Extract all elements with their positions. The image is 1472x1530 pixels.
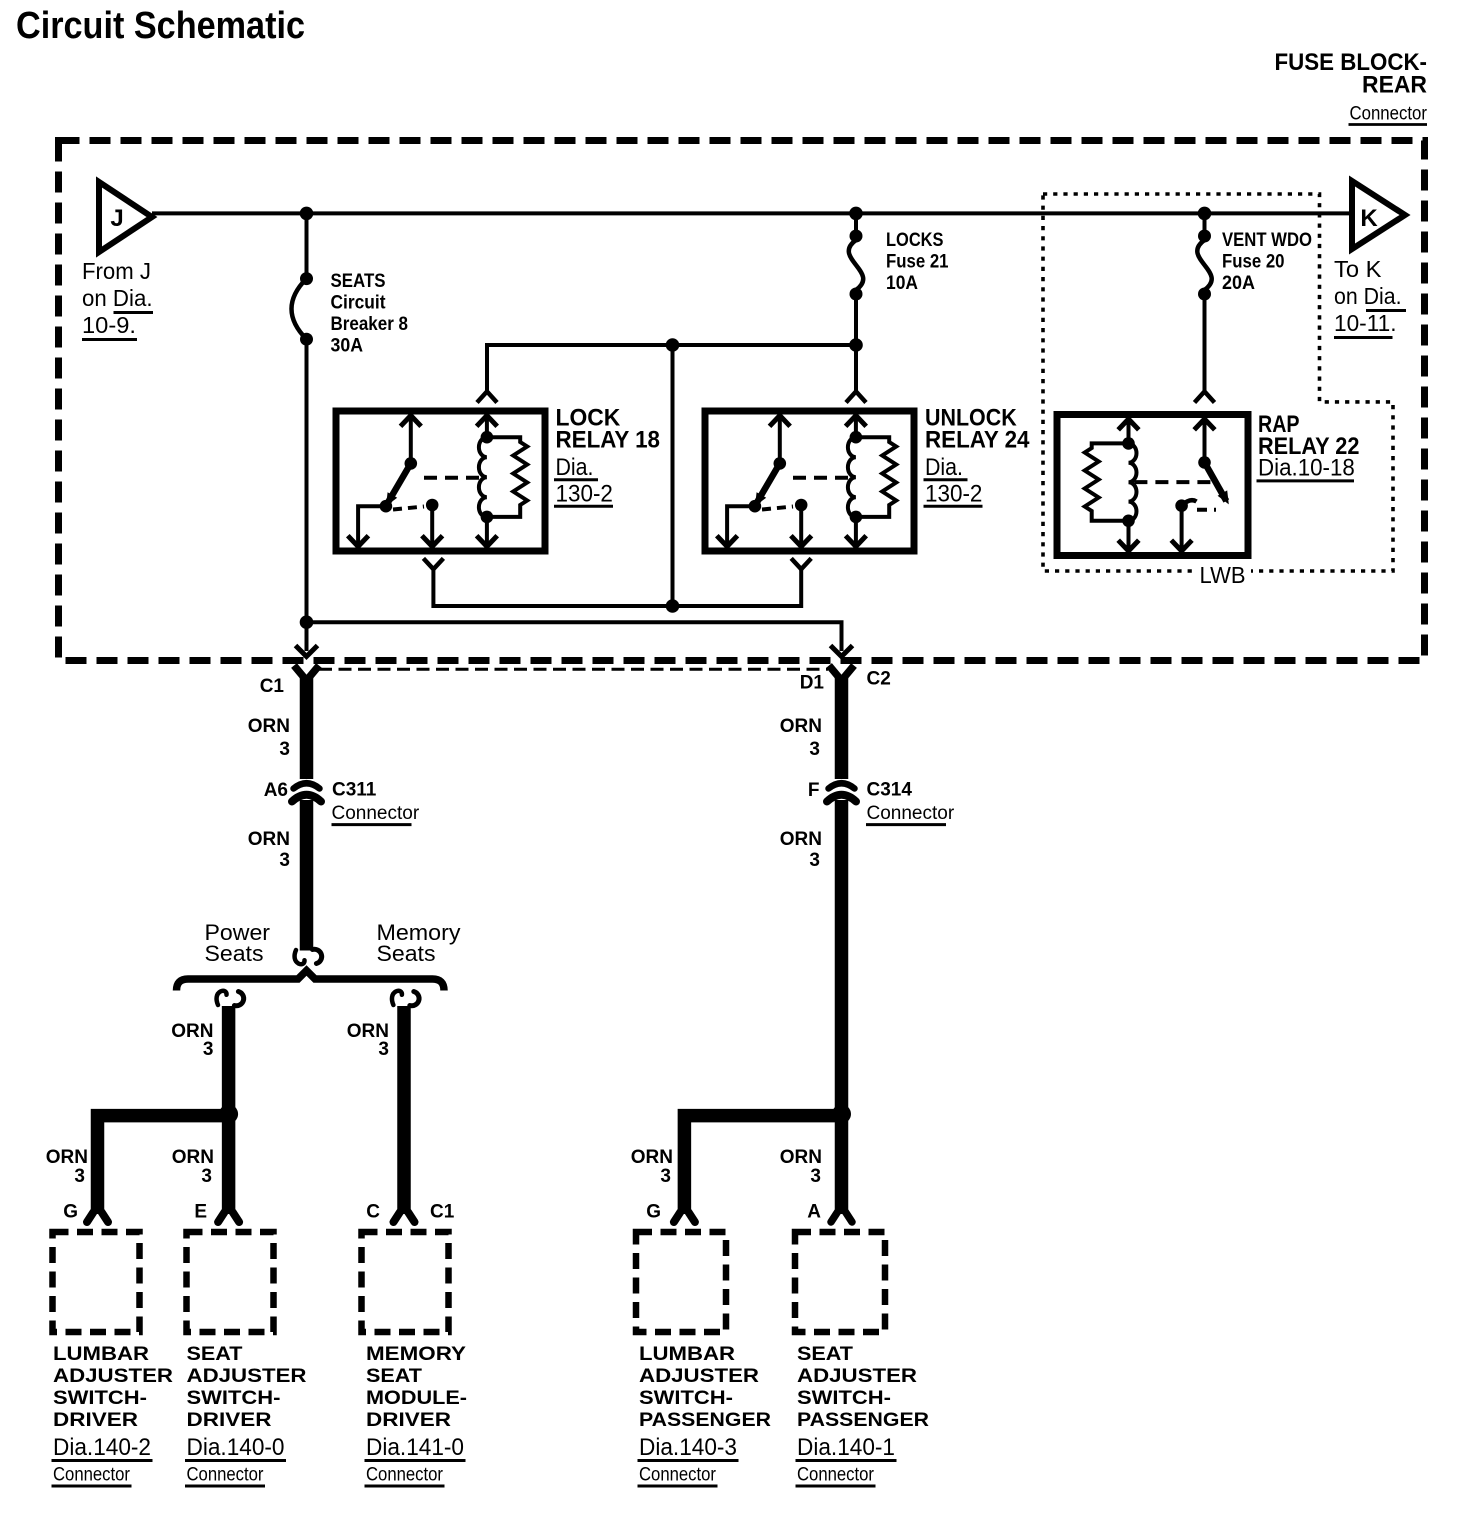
svg-text:Breaker 8: Breaker 8 — [331, 314, 409, 335]
node breaker distribution — [300, 615, 314, 629]
svg-text:3: 3 — [279, 850, 290, 871]
svg-text:3: 3 — [203, 1039, 214, 1060]
svg-text:C: C — [366, 1202, 380, 1223]
svg-text:LUMBAR: LUMBAR — [53, 1344, 149, 1365]
svg-text:ADJUSTER: ADJUSTER — [53, 1366, 173, 1387]
svg-text:3: 3 — [378, 1039, 389, 1060]
node breaker tap — [300, 207, 314, 221]
svg-text:ORN: ORN — [780, 1147, 822, 1168]
svg-text:LWB: LWB — [1200, 562, 1246, 588]
svg-text:PASSENGER: PASSENGER — [797, 1410, 929, 1431]
label LOCK RELAY 18 Dia. 130-2 — [554, 405, 660, 508]
svg-text:Connector: Connector — [187, 1465, 265, 1486]
svg-text:ORN: ORN — [46, 1147, 88, 1168]
wire ORN 3 driver lower — [248, 800, 307, 951]
svg-text:RELAY 18: RELAY 18 — [556, 427, 661, 454]
svg-text:Seats: Seats — [377, 941, 436, 966]
node driver splice — [219, 1105, 238, 1124]
label Memory Seats — [377, 920, 461, 966]
UNLOCK relay switch — [717, 416, 812, 547]
svg-text:G: G — [646, 1202, 661, 1223]
box seat adjuster switch passenger — [795, 1232, 885, 1332]
svg-text:on Dia.: on Dia. — [82, 285, 153, 311]
node fuse 21 tap — [849, 207, 863, 221]
svg-text:Dia.10-18: Dia.10-18 — [1258, 455, 1355, 482]
node bus return link — [666, 338, 680, 352]
connector C314 F — [808, 780, 955, 825]
node passenger splice — [832, 1105, 851, 1124]
svg-text:SWITCH-: SWITCH- — [187, 1388, 281, 1409]
label ORN 3 wire E driver — [172, 1147, 214, 1187]
label LOCKS Fuse 21 10A — [886, 230, 949, 294]
UNLOCK relay coil — [846, 416, 867, 547]
svg-text:PASSENGER: PASSENGER — [639, 1410, 771, 1431]
svg-text:C2: C2 — [867, 669, 891, 690]
connector half lock coil feed — [477, 392, 497, 403]
connector half rap switch feed — [1195, 392, 1215, 403]
svg-text:ORN: ORN — [780, 829, 822, 850]
svg-text:ADJUSTER: ADJUSTER — [797, 1366, 917, 1387]
label LUMBAR ADJUSTER SWITCH-PASSENGER — [638, 1344, 772, 1486]
wire branch to G passenger — [684, 1116, 841, 1214]
wire E driver — [222, 1114, 236, 1214]
svg-text:SEATS: SEATS — [331, 271, 386, 292]
svg-text:ORN: ORN — [172, 1147, 214, 1168]
wire branch to G driver — [98, 1116, 229, 1214]
svg-text:10-11.: 10-11. — [1334, 310, 1397, 336]
svg-text:C1: C1 — [430, 1202, 455, 1223]
box seat adjuster switch driver — [187, 1232, 274, 1332]
svg-text:Connector: Connector — [867, 803, 955, 824]
svg-text:To K: To K — [1334, 256, 1382, 282]
svg-text:C1: C1 — [260, 676, 285, 697]
box lumbar adjuster switch driver — [53, 1232, 140, 1332]
svg-text:MODULE-: MODULE- — [366, 1388, 467, 1409]
circuit breaker 8 — [292, 213, 314, 651]
svg-text:LOCKS: LOCKS — [886, 230, 944, 251]
svg-text:E: E — [194, 1202, 207, 1223]
pin fork C memory — [394, 1212, 415, 1222]
svg-text:30A: 30A — [331, 336, 364, 357]
pin fork A passenger — [831, 1212, 852, 1222]
svg-text:Circuit Schematic: Circuit Schematic — [16, 5, 305, 47]
RAP relay switch — [1171, 419, 1229, 551]
node fuse 20 tap — [1198, 207, 1212, 221]
label ORN 3 wire A passenger — [780, 1147, 822, 1187]
svg-text:Circuit: Circuit — [331, 293, 387, 314]
svg-text:K: K — [1360, 205, 1378, 232]
wire bus to return link — [671, 345, 675, 606]
UNLOCK relay coil link dashed — [793, 476, 852, 480]
svg-text:ORN: ORN — [631, 1147, 673, 1168]
svg-text:Connector: Connector — [1350, 104, 1428, 125]
svg-text:Dia.: Dia. — [556, 454, 594, 481]
fuse 20 — [1197, 213, 1211, 391]
svg-text:Connector: Connector — [332, 803, 420, 824]
label LUMBAR ADJUSTER SWITCH-DRIVER — [52, 1344, 174, 1486]
svg-text:130-2: 130-2 — [925, 481, 982, 508]
bracket seats options — [177, 971, 445, 991]
svg-text:Connector: Connector — [797, 1465, 875, 1486]
svg-text:10-9.: 10-9. — [82, 312, 136, 338]
pin fork E driver — [218, 1212, 239, 1222]
svg-text:Connector: Connector — [639, 1465, 717, 1486]
splice hook driver wire end — [295, 949, 322, 964]
svg-text:MEMORY: MEMORY — [366, 1344, 466, 1365]
connector half lock switch out — [423, 558, 443, 569]
relay LOCK RELAY 18 box — [336, 411, 545, 551]
RAP relay coil — [1118, 419, 1139, 551]
svg-text:on Dia.: on Dia. — [1334, 283, 1402, 309]
splice hook memory seats branch — [392, 991, 419, 1006]
label To K on Dia. 10-11. — [1334, 256, 1406, 338]
svg-text:Fuse 20: Fuse 20 — [1222, 252, 1285, 273]
label MEMORY SEAT MODULE-DRIVER — [365, 1344, 468, 1486]
svg-text:Dia.: Dia. — [925, 454, 963, 481]
node return junction — [666, 599, 680, 613]
svg-text:Dia.140-0: Dia.140-0 — [187, 1434, 285, 1461]
fuse 21 — [849, 213, 863, 345]
svg-text:3: 3 — [201, 1166, 212, 1187]
svg-text:REAR: REAR — [1362, 72, 1427, 99]
svg-text:3: 3 — [810, 1166, 821, 1187]
svg-text:SWITCH-: SWITCH- — [797, 1388, 891, 1409]
connector K — [1352, 181, 1405, 249]
svg-text:Fuse 21: Fuse 21 — [886, 252, 949, 273]
svg-text:20A: 20A — [1222, 273, 1255, 294]
wire ORN 3 passenger upper — [780, 678, 842, 779]
svg-text:LUMBAR: LUMBAR — [639, 1344, 735, 1365]
wire breaker to connectors C1 C2 — [307, 622, 842, 651]
svg-text:3: 3 — [660, 1166, 671, 1187]
pin fork G passenger — [674, 1212, 695, 1222]
node bus fuse21 — [849, 338, 863, 352]
box lumbar adjuster switch passenger — [636, 1232, 726, 1332]
wire ORN 3 driver upper — [248, 678, 307, 779]
relay UNLOCK RELAY 24 box — [705, 411, 914, 551]
label LWB — [1193, 562, 1251, 588]
svg-text:J: J — [110, 205, 123, 232]
splice hook power seats branch — [217, 991, 244, 1006]
connector C1 — [260, 666, 319, 698]
connector C311 A6 — [264, 780, 420, 825]
svg-text:ORN: ORN — [248, 716, 290, 737]
label FUSE BLOCK-REAR — [1275, 49, 1428, 125]
LOCK relay resistor — [487, 437, 527, 517]
svg-text:SWITCH-: SWITCH- — [53, 1388, 147, 1409]
svg-text:D1: D1 — [800, 673, 825, 694]
svg-text:ADJUSTER: ADJUSTER — [639, 1366, 759, 1387]
wire fuse 21 to unlock coil — [854, 345, 858, 392]
connector half unlock switch out — [791, 558, 811, 569]
label Power Seats — [205, 920, 271, 966]
arrow into C2 — [831, 646, 853, 657]
wire main feed bus J to K — [152, 211, 1352, 215]
label ORN 3 wire G driver — [46, 1147, 88, 1187]
wire power seats branch — [171, 1006, 228, 1114]
svg-text:Seats: Seats — [205, 941, 264, 966]
svg-text:Connector: Connector — [53, 1465, 131, 1486]
fuse block rear dashed box — [59, 141, 1425, 661]
svg-text:SEAT: SEAT — [187, 1344, 243, 1365]
connector half unlock coil feed — [846, 392, 866, 403]
svg-text:C314: C314 — [867, 780, 913, 801]
svg-text:VENT WDO: VENT WDO — [1222, 230, 1312, 251]
svg-text:Dia.140-1: Dia.140-1 — [797, 1434, 895, 1461]
svg-text:ORN: ORN — [248, 829, 290, 850]
svg-text:3: 3 — [279, 739, 290, 760]
svg-text:Dia.141-0: Dia.141-0 — [366, 1434, 464, 1461]
connector face dashed line — [319, 668, 828, 671]
svg-text:A: A — [807, 1202, 821, 1223]
LWB dotted box — [1043, 194, 1393, 571]
svg-text:3: 3 — [809, 850, 820, 871]
LOCK relay switch — [348, 416, 443, 547]
svg-text:G: G — [63, 1202, 78, 1223]
svg-text:130-2: 130-2 — [556, 481, 613, 508]
svg-text:F: F — [808, 780, 820, 801]
label ORN 3 wire G passenger — [631, 1147, 673, 1187]
LOCK relay coil link dashed — [424, 476, 483, 480]
label SEAT ADJUSTER SWITCH-DRIVER — [185, 1344, 307, 1486]
svg-text:3: 3 — [809, 739, 820, 760]
wire relay switch return — [433, 569, 801, 606]
svg-text:C311: C311 — [332, 780, 377, 801]
box memory seat module driver — [362, 1232, 449, 1332]
pin fork G driver — [87, 1212, 108, 1222]
svg-text:DRIVER: DRIVER — [187, 1410, 272, 1431]
RAP relay resistor — [1085, 443, 1129, 520]
svg-text:10A: 10A — [886, 273, 918, 294]
label RAP RELAY 22 Dia.10-18 — [1257, 411, 1360, 482]
label SEAT ADJUSTER SWITCH-PASSENGER — [796, 1344, 930, 1486]
relay RAP RELAY 22 box — [1057, 415, 1248, 556]
svg-text:3: 3 — [74, 1166, 85, 1187]
connector J — [99, 182, 152, 252]
svg-text:Dia.140-3: Dia.140-3 — [639, 1434, 737, 1461]
connector C2 — [800, 666, 891, 694]
svg-text:SWITCH-: SWITCH- — [639, 1388, 733, 1409]
svg-text:A6: A6 — [264, 780, 288, 801]
UNLOCK relay resistor — [856, 437, 896, 517]
wire bus to relay coils — [487, 345, 856, 392]
svg-text:DRIVER: DRIVER — [366, 1410, 451, 1431]
LOCK relay coil — [477, 416, 498, 547]
RAP relay coil link dashed — [1134, 480, 1214, 484]
svg-text:Connector: Connector — [366, 1465, 444, 1486]
svg-text:SEAT: SEAT — [797, 1344, 853, 1365]
svg-text:RELAY 24: RELAY 24 — [925, 427, 1030, 454]
svg-text:ORN: ORN — [780, 716, 822, 737]
svg-text:From J: From J — [82, 258, 151, 284]
svg-text:Dia.140-2: Dia.140-2 — [53, 1434, 151, 1461]
svg-text:SEAT: SEAT — [366, 1366, 422, 1387]
svg-text:DRIVER: DRIVER — [53, 1410, 138, 1431]
arrow into C1 — [296, 646, 318, 657]
label From J on Dia. 10-9. — [82, 258, 153, 340]
svg-text:ADJUSTER: ADJUSTER — [187, 1366, 307, 1387]
label UNLOCK RELAY 24 Dia. 130-2 — [924, 405, 1031, 508]
wire memory seats branch — [347, 1006, 404, 1214]
label VENT WDO Fuse 20 20A — [1222, 230, 1312, 294]
wire ORN 3 passenger lower — [780, 800, 842, 1214]
label SEATS Circuit Breaker 8 30A — [331, 271, 409, 357]
